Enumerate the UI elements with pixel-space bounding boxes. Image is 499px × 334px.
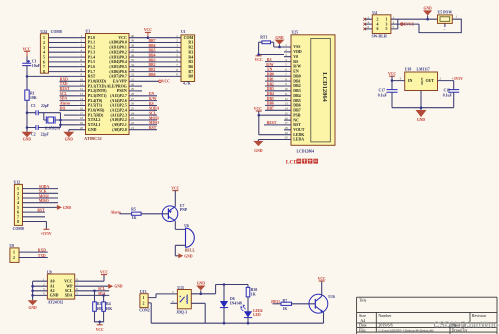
wire lcd DB1 [265,80,284,82]
svg-text:SCL: SCL [65,289,73,293]
wire EA VPP [137,80,159,82]
svg-text:DB4: DB4 [149,54,156,58]
svg-text:DB0: DB0 [149,73,156,77]
wire RS [265,61,284,63]
svg-text:22pF: 22pF [41,132,50,136]
wire VCC to IN [392,76,405,80]
svg-text:5: 5 [386,27,388,31]
svg-text:33: 33 [131,68,135,72]
junction C3 rail [26,111,29,114]
svg-text:D6: D6 [230,297,235,301]
svg-text:EA/VPP: EA/VPP [113,80,128,84]
wire C1 to RST node [26,66,28,77]
svg-text:20: 20 [80,126,84,130]
svg-text:SODA: SODA [149,107,160,111]
svg-text:(AD3)P0.3: (AD3)P0.3 [109,55,126,59]
svg-text:GND: GND [23,138,32,142]
led LED4 bar [244,317,252,319]
eeprom U9 body [47,274,74,299]
svg-text:DB5: DB5 [149,49,156,53]
wire crystal right vertical [60,113,62,128]
svg-text:PNP: PNP [180,208,188,212]
svg-text:1K: 1K [132,216,137,220]
svg-text:(A10)P2.2: (A10)P2.2 [110,118,127,122]
svg-text:P1.2: P1.2 [88,46,95,50]
svg-text:12: 12 [80,87,84,91]
svg-text:LM1117: LM1117 [417,68,430,72]
wire P2.4 SODA [137,109,158,111]
svg-text:10uF: 10uF [32,64,41,68]
relay left bottom stub [171,302,178,304]
transistor U7 base bar [167,208,169,219]
svg-text:(AD4)P0.4: (AD4)P0.4 [109,60,126,64]
svg-text:U25: U25 [292,30,299,34]
svg-text:VOUT: VOUT [293,128,305,132]
wire gnd rail [392,107,454,109]
svg-text:U18: U18 [405,68,412,72]
svg-text:28: 28 [131,92,135,96]
svg-text:R30: R30 [251,288,258,292]
svg-text:32: 32 [131,73,135,77]
svg-text:R3: R3 [97,302,102,306]
wires eeprom left bus [33,281,48,300]
svg-text:10K: 10K [106,307,113,311]
wire P0.0 DB7 [137,42,175,44]
svg-text:GND: GND [275,36,284,40]
wire LEDA to gnd [258,140,284,142]
wire P2.7 EN [137,95,158,97]
wire P0.2 DB5 [137,51,175,53]
wire switch to pow left [398,18,438,20]
svg-text:7: 7 [43,65,45,69]
svg-text:DB4: DB4 [267,92,274,96]
svg-text:R1: R1 [30,92,35,96]
svg-text:P1.6: P1.6 [88,65,95,69]
svg-text:R3: R3 [188,50,193,54]
transistor U7 emitter arrow pnp [169,211,172,214]
svg-text:SDA: SDA [60,97,68,101]
svg-text:4.7K: 4.7K [183,82,191,86]
svg-text:EN: EN [267,68,272,72]
svg-text:3: 3 [43,46,45,50]
wire reg gnd pin down [420,91,422,111]
power VCC reg bar [389,75,395,77]
wire C3 row [27,112,61,114]
wire U12 gnd row [23,206,57,208]
svg-text:1: 1 [13,251,15,255]
svg-text:DB0: DB0 [267,73,274,77]
wire VCC to emitter [174,191,176,207]
wire P3.4 SDA [60,100,79,102]
svg-text:(AD0)P0.0: (AD0)P0.0 [109,41,126,45]
wire VCC psb stem [259,111,284,115]
wire RST node to mcu [27,75,79,77]
ground GND u12 arrow [57,205,62,210]
svg-text:SW-DLH: SW-DLH [372,35,387,39]
svg-text:4: 4 [377,22,379,26]
svg-text:18: 18 [80,116,84,120]
svg-text:R/W: R/W [149,97,157,101]
svg-text:31: 31 [131,78,135,82]
wire XTAL1 [61,124,79,126]
svg-text:LEDK: LEDK [293,133,304,137]
resistor pack pin stubs [175,38,181,77]
wire XTAL2 [61,119,79,121]
wire lcd DB7 [265,109,284,111]
led LED4 triangle [244,311,252,317]
svg-text:RS: RS [293,60,298,64]
svg-text:DB2: DB2 [149,63,156,67]
svg-text:JDQ1: JDQ1 [271,300,280,304]
resistor R1 body [25,90,29,100]
wire P0.6 DB1 [137,71,175,73]
svg-text:U12: U12 [14,180,21,184]
wire P0.7 DB0 [137,75,175,77]
title block frame lines [357,297,497,334]
svg-text:MISO: MISO [39,199,49,203]
wire U12 RST [23,211,46,213]
svg-text:26: 26 [131,102,135,106]
junction relay gnd [200,293,203,296]
power VCC lcd bar [256,55,262,57]
wire RT1 left down to VCC node [259,42,284,54]
svg-text:OUT: OUT [426,79,435,83]
wire relay top right to gnd [191,293,215,295]
wire gnd stem up [427,16,429,20]
svg-text:21: 21 [131,126,135,130]
wire R1 to gnd rail [26,100,28,132]
diode D6 bar [220,307,228,309]
svg-text:SCL: SCL [60,92,68,96]
svg-text:P3.3(INT1): P3.3(INT1) [88,94,107,98]
power VCC top bar [145,31,151,33]
svg-text:VCC: VCC [96,328,104,332]
wire U12 SCK [23,192,59,194]
wire PSEN stub [137,90,143,92]
lcd pin stubs [284,47,291,140]
power jack bottom stub [444,23,446,27]
junction led rail [247,322,250,325]
svg-text:RST: RST [37,208,45,212]
svg-text:EVCC: EVCC [404,23,415,27]
wire P2.5 RS [137,105,158,107]
wire P2.6 RW [137,100,158,102]
SECTION: title block [357,297,499,334]
ground GND reg triangle [416,110,427,117]
svg-text:+5V5V: +5V5V [40,232,51,236]
transistor U16 base bar [314,299,316,309]
svg-text:P1.3: P1.3 [88,50,95,54]
svg-text:RXD: RXD [60,77,68,81]
svg-text:(A12)P2.4: (A12)P2.4 [110,109,127,113]
wire alarm to R5 [120,213,132,215]
svg-text:C18: C18 [444,89,451,93]
svg-text:P1.1: P1.1 [88,41,95,45]
svg-text:P3.7(RD): P3.7(RD) [88,113,104,117]
junction pullup vcc [98,321,101,324]
svg-text:RST: RST [88,75,96,79]
led LED4 arrows [241,307,246,311]
svg-text:VCC: VCC [162,80,170,84]
svg-text:23: 23 [131,116,135,120]
wire EN [265,70,284,72]
svg-text:Drawn by: Drawn by [452,327,468,332]
ground GND mcu triangle [63,132,74,137]
svg-text:R5: R5 [188,60,193,64]
svg-text:C:\Users\ADMINI~1\Desktop\MyDe: C:\Users\ADMINI~1\Desktop\MyDesign.ddb [378,328,434,332]
svg-text:14: 14 [80,97,84,101]
svg-text:DB7: DB7 [149,39,156,43]
svg-text:(A8)P2.0: (A8)P2.0 [112,128,127,132]
svg-text:0.1uF: 0.1uF [378,93,388,97]
svg-text:Title: Title [359,298,367,303]
wire P2.1 MISO [137,124,158,126]
svg-text:R/W: R/W [266,63,274,67]
switch U4 left stubs [365,19,372,29]
svg-text:LED: LED [253,313,261,317]
wire RST node down to R1 [26,76,28,90]
svg-text:36: 36 [131,53,135,57]
svg-text:C3: C3 [31,104,36,108]
svg-text:Number: Number [378,313,392,318]
wire ALE stub [137,85,143,87]
wire lcd DB5 [265,100,284,102]
fake hanzi block 4 [313,159,318,164]
wire P0.4 DB3 [137,61,175,63]
no-connect x marks [363,18,366,31]
resistor R5 body [132,212,142,215]
svg-text:Revision: Revision [472,313,486,318]
svg-text:39: 39 [131,39,135,43]
wire U12 row7 [23,216,46,218]
power VCC alarm bar [172,190,178,192]
svg-text:VDD: VDD [293,50,302,54]
svg-text:7: 7 [17,215,19,219]
ground GND relay stem [200,290,202,293]
junction VSS [278,46,281,49]
svg-text:17: 17 [285,121,289,125]
power +5V5V bar [43,228,49,230]
ground GND eeprom triangle [28,300,38,305]
svg-text:25: 25 [131,107,135,111]
resistor R7 body [281,302,292,305]
potentiometer RT1 body [262,41,271,44]
resistor R30 body [246,287,250,297]
svg-text:LCD: LCD [286,160,298,166]
wire C2 row [27,127,61,129]
diode D6 triangle [220,301,228,308]
svg-text:10K: 10K [30,96,37,100]
wire U12 SODA [23,188,59,190]
SECTION: left reset and crystal [22,30,79,142]
junction C17 top [391,79,394,82]
svg-text:30: 30 [131,82,135,86]
wire eeprom WP to gnd [75,285,109,287]
relay U15 switch contact [180,296,181,297]
svg-text:U5 POW: U5 POW [438,10,453,14]
svg-text:IN: IN [408,79,413,83]
wire gnd stem to VSS [279,45,281,48]
connector U8 body [10,248,19,263]
svg-text:LEDA: LEDA [293,138,304,142]
wire P3.7 [64,114,79,116]
wire R30 to LED4 [247,297,249,312]
svg-text:10: 10 [285,87,289,91]
svg-text:1: 1 [43,36,45,40]
junction reg gnd [420,106,423,109]
power EVCC symbol [401,23,404,26]
svg-text:1: 1 [17,187,19,191]
svg-text:R/W: R/W [293,65,301,69]
wire VCC to C1 [26,51,28,56]
svg-text:GND: GND [65,138,74,142]
svg-text:P3.1(TXD): P3.1(TXD) [88,84,107,88]
svg-text:14: 14 [285,107,289,111]
crystal Y1 leads [44,119,61,121]
svg-text:1K: 1K [251,292,256,296]
wire LED4 bottom [247,317,249,323]
wire R7 to base [292,303,316,305]
svg-text:U3: U3 [86,30,91,34]
svg-text:DB7: DB7 [293,109,300,113]
svg-text:20: 20 [285,136,289,140]
wire R5 to base [141,213,168,215]
svg-text:A2: A2 [50,289,55,293]
svg-text:DB4: DB4 [293,94,300,98]
svg-text:COM: COM [184,36,194,40]
lcd U25 body [291,35,335,146]
ground GND wp arrow [108,284,113,289]
svg-text:GND: GND [88,128,97,132]
wire P0.5 DB2 [137,66,175,68]
svg-text:16: 16 [285,116,289,120]
svg-text:C1: C1 [32,59,37,63]
ground GND lcd bottom triangle [253,141,263,146]
lcd inner screen rect [311,38,331,141]
svg-text:24: 24 [131,111,135,115]
svg-text:GND: GND [28,306,37,310]
svg-text:DB3: DB3 [293,89,300,93]
svg-text:11: 11 [80,82,83,86]
power VCC psb bar [256,110,262,112]
svg-text:MOSI: MOSI [39,194,49,198]
svg-text:(A14)P2.6: (A14)P2.6 [110,99,127,103]
svg-text:DB6: DB6 [267,102,274,106]
svg-text:C17: C17 [379,89,386,93]
svg-text:XTAL1: XTAL1 [88,123,101,127]
connector U24 body [40,34,48,73]
wire U12 MOSI [23,197,59,199]
svg-text:PSEN: PSEN [117,89,127,93]
svg-text:GND: GND [254,149,263,153]
svg-text:27: 27 [131,97,135,101]
svg-text:17: 17 [80,111,84,115]
svg-text:RST: RST [293,123,301,127]
svg-text:2: 2 [43,41,45,45]
transistor U7 circle [162,206,178,222]
svg-text:2: 2 [17,192,19,196]
junction sda pullup [102,294,105,297]
svg-text:R4: R4 [106,302,111,306]
svg-text:RXD: RXD [38,248,46,252]
wire sda pullup down [103,295,105,302]
wire P2.2 MOSI [137,119,158,121]
svg-text:SCL: SCL [149,111,157,115]
svg-text:4: 4 [17,201,19,205]
svg-text:U1: U1 [181,30,186,34]
svg-text:IN4148: IN4148 [230,301,242,305]
svg-text:U24: U24 [40,30,47,34]
svg-text:DB3: DB3 [149,58,156,62]
wire JDQ1 to R7 [273,303,282,305]
wire RT1 right to VSS [274,42,284,47]
svg-text:MISO: MISO [149,121,159,125]
junction RST node [26,75,29,78]
svg-text:0.1uF: 0.1uF [443,93,453,97]
wire U12 +5V [23,222,47,230]
SECTION: alarm transistor [111,187,196,259]
wire pullup bottoms [95,311,104,322]
svg-text:R6: R6 [188,65,193,69]
wire collector to VCC [321,281,323,296]
wire P2.0 RST [137,129,158,131]
wire U13 pin1 to relay [148,294,177,298]
svg-text:1: 1 [143,296,145,300]
svg-text:A1: A1 [50,284,55,288]
svg-text:CON2: CON2 [139,309,149,313]
transistor U7 collector diagonal [168,216,175,221]
junction d6 bottom [223,322,226,325]
wire RW [265,66,284,68]
svg-text:P3.4(T0): P3.4(T0) [88,99,103,103]
svg-text:WP: WP [66,284,73,288]
wire bell bottom to gnd [175,245,185,256]
svg-text:EN: EN [149,92,154,96]
svg-text:DB1: DB1 [267,77,274,81]
svg-text:PSB: PSB [293,113,301,117]
svg-text:RS: RS [149,102,154,106]
svg-text:DB2: DB2 [267,82,274,86]
wire P3.6 DQ [60,109,79,111]
junction gnd stem [426,18,429,21]
svg-text:VCC: VCC [64,279,73,283]
svg-text:GND: GND [184,254,193,258]
resistor R3 body [93,302,97,311]
svg-text:3: 3 [17,197,19,201]
svg-text:8: 8 [17,220,19,224]
svg-text:VSS: VSS [293,45,300,49]
switch U4 body [372,15,391,34]
SECTION: regulator [378,68,463,122]
svg-text:P3.2(INT0): P3.2(INT0) [88,89,107,93]
wire collector to bell [175,221,185,229]
ground GND lcd top triangle [275,40,285,45]
svg-text:5: 5 [17,206,19,210]
transistor U16 emitter arrow npn [320,309,323,312]
svg-text:18: 18 [285,126,289,130]
svg-text:JDQ-3: JDQ-3 [176,311,187,315]
SECTION: relay output [139,277,335,325]
wire P0.1 DB6 [137,46,175,48]
svg-text:V0: V0 [293,55,298,59]
svg-text:VCC: VCC [388,72,396,76]
svg-text:C2: C2 [31,132,36,136]
connector U12 body [14,184,22,225]
mcu right pin stubs [129,38,137,130]
svg-text:File:: File: [359,327,366,332]
wire mcu GND pin [69,130,79,132]
svg-text:37: 37 [131,48,135,52]
